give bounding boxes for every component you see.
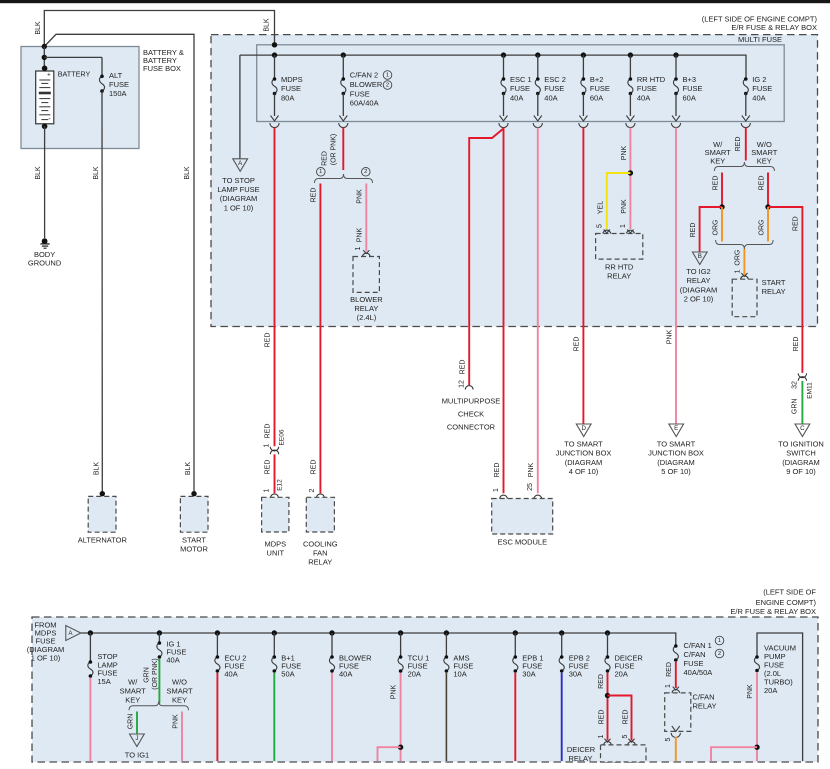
wire to rr htd relay YEL — [607, 173, 631, 229]
svg-text:KEY: KEY — [172, 696, 187, 705]
svg-text:RED: RED — [598, 710, 605, 725]
wire body ground BLK — [44, 126, 46, 238]
svg-text:JUNCTION BOX: JUNCTION BOX — [556, 449, 612, 458]
svg-text:(OR PNK): (OR PNK) — [331, 134, 338, 166]
node w smart key — [719, 204, 724, 209]
svg-text:UNIT: UNIT — [267, 549, 285, 558]
triangle D to smart junction box — [576, 424, 591, 437]
triangle C to ignition switch — [795, 424, 810, 437]
fuse BLOWER 40A — [329, 630, 334, 635]
svg-text:EM11: EM11 — [806, 382, 813, 399]
svg-text:PNK: PNK — [747, 684, 754, 699]
svg-text:SMART: SMART — [166, 687, 193, 696]
svg-text:(2.4L): (2.4L) — [357, 313, 377, 322]
svg-text:E: E — [674, 425, 678, 432]
svg-text:40A: 40A — [166, 656, 179, 665]
start motor M2 — [191, 491, 196, 496]
svg-text:RELAY: RELAY — [607, 271, 631, 280]
svg-text:PNK: PNK — [667, 329, 674, 344]
svg-text:BLK: BLK — [93, 462, 100, 476]
svg-text:TO STOP: TO STOP — [222, 176, 255, 185]
svg-text:BLOWER: BLOWER — [350, 80, 383, 89]
fuse TCU 1 20A — [398, 630, 403, 635]
wire TCU1 fuse PNK — [400, 673, 402, 761]
svg-text:15A: 15A — [97, 677, 110, 686]
svg-text:TO IG2: TO IG2 — [686, 267, 710, 276]
svg-text:PNK: PNK — [172, 714, 179, 729]
node bus BLK entry — [272, 42, 277, 47]
svg-text:FUSE: FUSE — [684, 659, 704, 668]
svg-text:1: 1 — [386, 72, 389, 78]
alt fuse F1 150A — [44, 56, 102, 58]
svg-text:1: 1 — [735, 269, 742, 273]
MDPS unit U3 — [262, 497, 289, 532]
svg-text:ORG: ORG — [758, 220, 765, 236]
svg-text:ALTERNATOR: ALTERNATOR — [78, 535, 128, 544]
wire org wo-smart-key ORG — [767, 207, 769, 242]
node deicer split — [605, 693, 610, 698]
multi fuse box U2 — [257, 45, 785, 122]
wire to cooling fan relay RED — [319, 184, 321, 494]
wire battery to multi fuse box BLK — [44, 11, 274, 47]
wire to ignition switch RED — [768, 207, 802, 373]
svg-text:FUSE: FUSE — [637, 84, 657, 93]
svg-text:RELAY: RELAY — [686, 276, 710, 285]
svg-text:BLK: BLK — [35, 166, 42, 180]
svg-text:B+2: B+2 — [590, 75, 604, 84]
svg-text:B: B — [698, 253, 702, 260]
triangle J to IG1 — [130, 734, 145, 747]
svg-text:(DIAGRAM: (DIAGRAM — [782, 458, 820, 467]
svg-text:MULTIPURPOSE: MULTIPURPOSE — [442, 397, 501, 406]
svg-text:RELAY: RELAY — [308, 558, 332, 567]
svg-text:RED: RED — [793, 337, 800, 352]
fuse C/FAN2-BLOWER 60A/40A — [341, 52, 346, 57]
svg-text:40A: 40A — [510, 93, 523, 102]
svg-text:5 OF 10): 5 OF 10) — [661, 467, 691, 476]
svg-text:ENGINE COMPT): ENGINE COMPT) — [756, 598, 817, 607]
svg-text:DEICER: DEICER — [567, 745, 596, 754]
fuse ECU 2 40A — [215, 630, 220, 635]
fuse DEICER 20A — [605, 630, 610, 635]
svg-text:RELAY: RELAY — [354, 304, 378, 313]
svg-text:TO IGNITION: TO IGNITION — [778, 440, 824, 449]
svg-text:RED: RED — [690, 223, 697, 238]
svg-text:(DIAGRAM: (DIAGRAM — [220, 194, 258, 203]
svg-text:ESC 2: ESC 2 — [544, 75, 566, 84]
wire EPB1 fuse RED — [514, 673, 516, 761]
svg-text:E/R FUSE & RELAY BOX: E/R FUSE & RELAY BOX — [731, 23, 817, 32]
svg-text:4 OF 10): 4 OF 10) — [569, 467, 599, 476]
svg-text:FUSE: FUSE — [109, 80, 129, 89]
svg-text:FUSE: FUSE — [350, 89, 370, 98]
svg-text:PNK: PNK — [621, 145, 628, 160]
svg-text:5: 5 — [596, 224, 603, 228]
svg-text:RED: RED — [574, 337, 581, 352]
split brace cfan2 — [317, 168, 326, 177]
svg-text:E12: E12 — [277, 479, 284, 491]
svg-text:KEY: KEY — [710, 156, 725, 165]
wire IG1 fuse GRN (OR PNK) — [158, 659, 160, 704]
svg-text:LAMP FUSE: LAMP FUSE — [217, 185, 259, 194]
wire IG2 wo-smart-key RED — [767, 173, 769, 208]
svg-text:RED: RED — [265, 424, 272, 439]
svg-text:32: 32 — [792, 381, 799, 389]
svg-text:1: 1 — [665, 684, 672, 688]
wire IG1 wo-smart-key PNK — [181, 712, 183, 762]
battery fuse box — [21, 47, 139, 149]
svg-text:MDPS: MDPS — [264, 540, 286, 549]
svg-text:RED: RED — [311, 188, 318, 203]
wire to blower relay PNK — [365, 184, 367, 252]
fuse ESC 2 40A — [535, 52, 540, 57]
svg-text:1 OF 10): 1 OF 10) — [224, 203, 254, 212]
triangle E to smart junction box — [669, 424, 684, 437]
svg-text:MDPS: MDPS — [281, 75, 303, 84]
wire ECU2 fuse RED — [216, 673, 218, 761]
svg-text:20A: 20A — [408, 670, 421, 679]
svg-text:2: 2 — [386, 82, 389, 88]
svg-text:20A: 20A — [615, 670, 628, 679]
svg-text:GROUND: GROUND — [28, 258, 62, 267]
svg-text:C/FAN: C/FAN — [693, 693, 715, 702]
svg-text:1: 1 — [263, 443, 270, 447]
svg-text:1 OF 10): 1 OF 10) — [31, 654, 61, 663]
wire BLOWER fuse PNK — [331, 673, 333, 761]
svg-text:W/O: W/O — [172, 678, 187, 687]
fuse RR HTD 40A — [628, 52, 633, 57]
svg-text:FAN: FAN — [313, 549, 328, 558]
svg-text:C/FAN: C/FAN — [684, 650, 706, 659]
wire to start relay ORG — [743, 249, 745, 275]
svg-text:FUSE: FUSE — [510, 84, 530, 93]
fuse MDPS 80A — [274, 55, 276, 79]
svg-text:RED: RED — [265, 460, 272, 475]
svg-text:40A: 40A — [544, 93, 557, 102]
svg-text:RED: RED — [265, 333, 272, 348]
wire vacuum pump fuse PNK — [756, 673, 758, 762]
svg-text:150A: 150A — [109, 89, 127, 98]
svg-text:1: 1 — [620, 224, 627, 228]
svg-text:25: 25 — [527, 483, 534, 491]
wire alternator BLK — [101, 91, 103, 491]
svg-text:RED: RED — [494, 463, 501, 478]
fuse ESC 1 40A — [501, 52, 506, 57]
svg-text:60A/40A: 60A/40A — [350, 99, 379, 108]
connector EE06 pin 1 — [270, 447, 278, 451]
connector EM11 pin 32 — [798, 373, 806, 377]
svg-text:RR HTD: RR HTD — [605, 262, 634, 271]
svg-text:(LEFT SIDE OF ENGINE COMPT): (LEFT SIDE OF ENGINE COMPT) — [702, 14, 818, 23]
svg-text:IG 2: IG 2 — [752, 75, 766, 84]
svg-text:PNK: PNK — [528, 462, 535, 477]
svg-text:E/R FUSE & RELAY BOX: E/R FUSE & RELAY BOX — [730, 607, 816, 616]
wire AMS fuse BLK — [445, 673, 447, 761]
svg-text:RED: RED — [792, 216, 799, 231]
svg-text:80A: 80A — [281, 93, 294, 102]
node rr htd split — [628, 170, 633, 175]
svg-text:40A/50A: 40A/50A — [684, 668, 713, 677]
label circled 1 2 cfan2 fuse — [383, 71, 392, 80]
svg-text:RED: RED — [758, 176, 765, 191]
wire deicer relay pin5 RED — [608, 696, 632, 741]
fuse IG 1 40A — [157, 630, 162, 635]
deicer relay K5 — [601, 745, 647, 762]
wire to IG2 relay RED — [700, 207, 722, 252]
wire RR HTD fuse PNK — [629, 128, 631, 230]
svg-text:5: 5 — [665, 737, 672, 741]
wire cfan2 fuse RED (OR PNK) — [342, 128, 344, 171]
svg-text:FUSE: FUSE — [590, 84, 610, 93]
svg-text:12: 12 — [458, 380, 465, 388]
wire IG2 w-smart-key RED — [721, 173, 723, 208]
svg-text:(DIAGRAM: (DIAGRAM — [657, 458, 695, 467]
fuse B+3 60A — [673, 52, 678, 57]
multipurpose check connector pin 12 — [465, 386, 473, 390]
svg-text:40A: 40A — [752, 93, 765, 102]
svg-text:RELAY: RELAY — [693, 702, 717, 711]
svg-text:TO SMART: TO SMART — [564, 440, 603, 449]
wire to ignition switch GRN — [801, 381, 803, 424]
blower relay K2 — [353, 257, 379, 293]
wire org w-smart-key ORG — [721, 207, 723, 242]
node battery fusebox top — [42, 44, 47, 49]
fuse EPB 2 30A — [559, 630, 564, 635]
cooling fan relay K1 — [306, 497, 334, 532]
svg-text:40A: 40A — [224, 670, 237, 679]
node TCU1 branch — [398, 745, 403, 750]
svg-text:KEY: KEY — [757, 156, 772, 165]
svg-text:50A: 50A — [281, 670, 294, 679]
ESC module U4 — [492, 499, 553, 535]
svg-text:60A: 60A — [683, 93, 696, 102]
svg-text:RED: RED — [311, 460, 318, 475]
svg-text:30A: 30A — [522, 670, 535, 679]
svg-text:B+3: B+3 — [683, 75, 697, 84]
fuse EPB 1 30A — [513, 630, 518, 635]
svg-text:1: 1 — [355, 246, 362, 250]
svg-text:ALT: ALT — [109, 71, 123, 80]
wire IG2 fuse RED — [745, 128, 747, 161]
wire to IG1 relay GRN — [136, 712, 138, 734]
svg-text:CHECK: CHECK — [458, 410, 484, 419]
wire EPB2 fuse BLU — [561, 673, 563, 761]
svg-text:1: 1 — [263, 488, 270, 492]
svg-text:FUSE: FUSE — [683, 84, 703, 93]
wire battery to start motor BLK — [44, 34, 194, 491]
fuse B+2 60A — [581, 52, 586, 57]
svg-text:SMART: SMART — [120, 687, 147, 696]
svg-text:C/FAN 2: C/FAN 2 — [350, 71, 378, 80]
svg-text:BLK: BLK — [184, 166, 191, 180]
svg-text:+: + — [47, 71, 51, 78]
svg-text:PNK: PNK — [391, 684, 398, 699]
wire cfan relay out ORG — [672, 726, 680, 732]
start relay K4 — [732, 279, 757, 317]
merge brace start relay — [716, 240, 774, 249]
node wo smart key — [765, 204, 770, 209]
svg-text:RED: RED — [459, 360, 466, 375]
battery B1 — [43, 47, 45, 72]
svg-text:J: J — [135, 735, 138, 742]
svg-text:COOLING: COOLING — [303, 540, 338, 549]
wire B+1 fuse GRN — [273, 673, 275, 761]
svg-text:GRN: GRN — [143, 667, 150, 683]
fuse VACUUM PUMP 20A — [754, 657, 759, 671]
E/R fuse & relay box (engine compt) lower — [32, 617, 818, 762]
svg-text:ESC MODULE: ESC MODULE — [498, 537, 548, 546]
wire ESC2 fuse to ESC module PNK — [537, 128, 539, 494]
svg-text:EE06: EE06 — [278, 429, 285, 445]
bus multi fuse — [240, 55, 746, 79]
svg-text:2: 2 — [718, 651, 721, 657]
svg-text:START: START — [762, 278, 786, 287]
svg-text:1: 1 — [493, 488, 500, 492]
svg-text:FUSE: FUSE — [752, 84, 772, 93]
fuse STOP LAMP 15A — [88, 630, 93, 635]
E/R fuse & relay box (engine compt) upper — [211, 35, 818, 327]
svg-text:1: 1 — [319, 169, 322, 175]
svg-text:YEL: YEL — [597, 201, 604, 214]
svg-text:BATTERY: BATTERY — [58, 70, 91, 79]
svg-text:9 OF 10): 9 OF 10) — [786, 467, 816, 476]
svg-text:60A: 60A — [590, 93, 603, 102]
wire ESC1 fuse to ESC module RED — [503, 128, 505, 494]
svg-text:C: C — [800, 425, 805, 432]
svg-text:MOTOR: MOTOR — [180, 544, 208, 553]
svg-text:(OR PNK): (OR PNK) — [152, 658, 159, 690]
wire stop lamp fuse PNK — [89, 678, 91, 761]
svg-text:20A: 20A — [764, 686, 777, 695]
vacuum pump fuse box segment — [757, 633, 803, 761]
wire B+2 fuse to smart junction box RED — [582, 128, 584, 424]
svg-text:RED: RED — [622, 710, 629, 725]
svg-text:FUSE: FUSE — [281, 84, 301, 93]
svg-text:C/FAN 1: C/FAN 1 — [684, 641, 712, 650]
svg-text:ESC 1: ESC 1 — [510, 75, 532, 84]
svg-text:RED: RED — [598, 674, 605, 689]
svg-text:2: 2 — [309, 488, 316, 492]
svg-text:TO IG1: TO IG1 — [125, 751, 149, 760]
cfan relay K6 — [665, 693, 691, 732]
ground body ground — [42, 238, 48, 244]
wire B+3 fuse to smart junction box PNK — [675, 128, 677, 424]
svg-text:40A: 40A — [339, 670, 352, 679]
RR HTD relay K3 — [596, 234, 643, 260]
wire TCU1 branch PNK — [378, 747, 401, 761]
svg-text:PNK: PNK — [621, 199, 628, 214]
svg-text:RELAY: RELAY — [568, 754, 592, 763]
svg-text:FUSE BOX: FUSE BOX — [143, 64, 181, 73]
svg-text:GRN: GRN — [792, 399, 799, 415]
svg-text:TO SMART: TO SMART — [657, 440, 696, 449]
svg-text:FUSE: FUSE — [544, 84, 564, 93]
svg-text:40A: 40A — [637, 93, 650, 102]
svg-text:BLK: BLK — [35, 21, 42, 35]
wire DEICER fuse RED — [607, 673, 609, 741]
svg-text:30A: 30A — [569, 670, 582, 679]
svg-text:PNK: PNK — [356, 189, 363, 204]
svg-text:5: 5 — [622, 734, 629, 738]
svg-text:1: 1 — [718, 638, 721, 644]
svg-text:GRN: GRN — [127, 714, 134, 730]
svg-text:BLK: BLK — [185, 462, 192, 476]
svg-text:D: D — [581, 425, 586, 432]
svg-text:START: START — [182, 535, 206, 544]
svg-text:ORG: ORG — [712, 220, 719, 236]
svg-text:CONNECTOR: CONNECTOR — [447, 423, 496, 432]
wire MDPS fuse to MDPS unit RED — [274, 128, 276, 447]
alternator M1 — [100, 491, 105, 496]
svg-text:PNK: PNK — [356, 227, 363, 242]
svg-text:RED: RED — [712, 176, 719, 191]
wire to stop lamp fuse — [239, 55, 241, 158]
svg-text:W/: W/ — [128, 678, 138, 687]
svg-text:KEY: KEY — [125, 696, 140, 705]
bus lower fuse box — [81, 633, 676, 646]
svg-text:MULTI FUSE: MULTI FUSE — [738, 35, 782, 44]
svg-text:(LEFT SIDE OF: (LEFT SIDE OF — [763, 588, 816, 597]
fuse C/FAN1 40A/50A — [675, 645, 677, 647]
fuse AMS 10A — [444, 630, 449, 635]
svg-text:ORG: ORG — [735, 250, 742, 266]
wire ESC1 branch to check connector RED — [469, 129, 503, 386]
fuse IG 2 40A — [743, 79, 748, 94]
svg-text:(DIAGRAM: (DIAGRAM — [680, 285, 718, 294]
svg-text:RELAY: RELAY — [762, 287, 786, 296]
wire vacuum branch PNK — [711, 747, 757, 761]
fuse B+1 50A — [272, 630, 277, 635]
svg-text:SWITCH: SWITCH — [786, 449, 816, 458]
svg-text:RED: RED — [322, 151, 329, 166]
svg-text:2: 2 — [364, 169, 367, 175]
triangle B to IG2 relay — [692, 252, 707, 265]
svg-text:BLOWER: BLOWER — [350, 295, 383, 304]
node vacuum branch — [754, 745, 759, 750]
svg-text:RED: RED — [735, 137, 742, 152]
svg-text:BLK: BLK — [93, 166, 100, 180]
wire cfan1 fuse to cfan relay RED — [675, 662, 677, 688]
svg-text:RR HTD: RR HTD — [637, 75, 666, 84]
svg-text:(DIAGRAM: (DIAGRAM — [565, 458, 603, 467]
svg-text:BLK: BLK — [264, 18, 271, 32]
svg-text:10A: 10A — [453, 670, 466, 679]
svg-text:RED: RED — [666, 662, 673, 677]
svg-text:2 OF 10): 2 OF 10) — [684, 295, 714, 304]
svg-text:JUNCTION BOX: JUNCTION BOX — [648, 449, 704, 458]
svg-text:1: 1 — [598, 734, 605, 738]
